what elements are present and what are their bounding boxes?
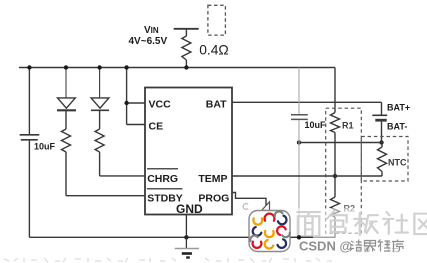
resistor R5 0.4 ohm [182,36,191,60]
node VCC branch/rail junction [124,65,128,69]
svg-text:BAT: BAT [206,98,227,110]
wire bottom ground rail [29,236,335,238]
svg-text:0.4Ω: 0.4Ω [199,42,229,57]
wire R5 to rail [185,60,187,68]
watermark ghost overlap copy [358,242,399,253]
wire TEMP pin to NTC [232,175,382,177]
wire to STDBY pin [66,195,145,197]
resistor R2 [331,197,340,217]
wire battery bottom lead [381,122,383,143]
svg-text:BAT-: BAT- [387,122,407,132]
battery BT1 negative plate [375,119,386,122]
dashed empty option box [208,5,226,35]
wire to VCC pin [127,102,145,104]
svg-text:TEMP: TEMP [198,173,227,185]
node R5/rail junction [184,65,188,69]
wire R1 to TEMP node [334,133,336,198]
watermark CSDN logo [249,211,290,252]
capacitor C1 10uF input, top plate [20,134,40,136]
svg-text:VIN: VIN [144,25,159,36]
svg-text:PROG: PROG [198,193,229,205]
resistor R1 [331,113,340,133]
node C2/BAT- junction [297,140,301,144]
svg-text:CE: CE [149,121,164,133]
watermark char mian [297,212,320,236]
resistor R4 (CHRG LED resistor) [95,129,104,152]
svg-text:VCC: VCC [149,98,172,110]
battery BT1 positive plate [372,114,387,116]
wire LED D2 anode lead [99,68,101,98]
wire C2 top lead (faded) [298,68,300,115]
LED D1 cathode bar [57,109,76,111]
node D1/rail junction [64,65,68,69]
wire C1 bottom lead to ground rail [28,141,30,238]
wire NTC top lead [381,143,383,148]
wire VCC top rail [19,67,335,69]
wire R4 down [99,152,101,176]
node GND stem/ground rail junction [184,235,188,239]
node VCC pin tap [124,101,128,105]
svg-text:10uF: 10uF [34,142,56,152]
svg-text:NTC: NTC [388,158,407,168]
wire R3 down [65,152,67,196]
VIN terminal bar [174,28,199,30]
node C2/ground rail junction redraw [297,235,301,239]
wire C2 bottom lead to ground rail (faded) [298,120,300,237]
watermark char qu [414,214,427,234]
LED D2 triangle [91,98,109,108]
watermark char she [383,212,408,234]
capacitor C2 10uF output, bottom plate [291,118,308,120]
watermark logo speech tail [262,202,270,211]
watermark bottom text strip [4,258,332,262]
svg-text:4V~6.5V: 4V~6.5V [129,36,168,47]
dashed box battery pack NTC [361,137,408,182]
wire VIN to R5 [185,29,187,36]
wire BAT- to C2 node [299,142,382,144]
svg-text:10uF: 10uF [305,120,327,130]
watermark ghost arc [243,204,248,210]
dashed option box R1 R2 [326,108,362,233]
node TEMP/R1/R2 junction [333,174,337,178]
ground bar 3 [186,256,190,258]
wire R2 to ground rail [334,217,336,237]
svg-text:GND: GND [176,202,203,216]
watermark char xu [392,240,404,252]
overline CHRG [147,168,178,170]
wire battery top lead [381,102,383,114]
wire D1 to R3 [65,110,67,129]
ground bar 1 [175,248,199,250]
svg-text:CSDN @: CSDN @ [299,239,352,254]
watermark char bao [327,211,346,232]
wire C1 top lead [28,68,30,135]
node BAT-/NTC junction [379,140,383,144]
wire BAT pin to battery [232,101,382,103]
watermark char ban [354,213,378,235]
ground bar 2 [182,252,192,255]
watermark char cheng [378,240,391,252]
node C1/rail junction [27,65,31,69]
thermistor NTC [378,147,387,172]
resistor R3 (STDBY LED resistor) [62,129,71,152]
capacitor C2 10uF output, top plate [291,114,308,116]
wire NTC bottom lead [381,172,383,177]
wire GND pin stem [185,214,187,237]
LED D2 cathode bar [91,109,109,111]
wire ground symbol stem [185,237,187,248]
wire ground rail stub redraw [291,236,313,238]
wire rail to R1 [334,68,336,113]
wire to CE pin [127,124,145,126]
node D2/rail junction [97,65,101,69]
wire LED D1 anode lead [65,68,67,98]
watermark char jie1 [350,240,363,252]
wire rail to VCC/CE branch [126,68,128,125]
wire to CHRG pin [100,175,145,177]
watermark char jie2 [365,241,376,252]
IC U1 TP4056 body [145,88,232,215]
capacitor C1 10uF input, bottom plate [21,139,38,141]
wire D2 to R4 [99,110,101,129]
svg-text:R1: R1 [342,121,354,131]
svg-text:BAT+: BAT+ [387,103,410,113]
wire PROG pin down [232,193,266,213]
svg-text:CHRG: CHRG [147,173,178,185]
LED D1 triangle [58,98,76,108]
node C2/ground rail junction [297,235,301,239]
watermark wash overlay [292,208,427,239]
overline STDBY [147,188,183,190]
